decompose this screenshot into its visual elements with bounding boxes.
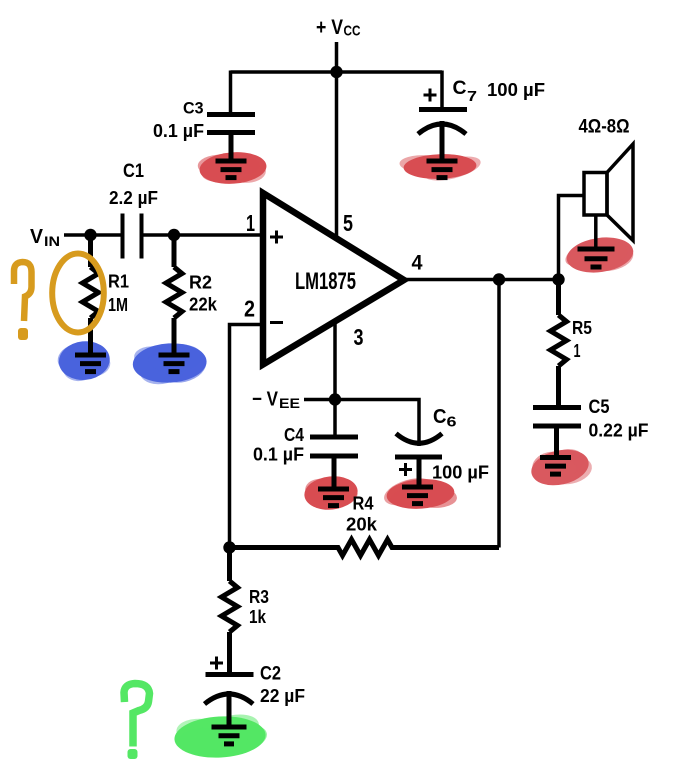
op-amp U1 LM1875 triangle <box>263 193 404 365</box>
svg-text:R5: R5 <box>572 318 592 338</box>
wire C3 drop <box>229 71 233 113</box>
ground C5 <box>540 458 571 475</box>
capacitor C3 <box>207 115 255 162</box>
C6 plus sign <box>399 463 412 476</box>
op-amp noninverting + sign <box>270 231 283 244</box>
svg-text:R4: R4 <box>353 493 375 514</box>
svg-text:CC: CC <box>344 23 361 40</box>
svg-text:4Ω-8Ω: 4Ω-8Ω <box>579 117 630 138</box>
capacitor C4 <box>310 437 358 489</box>
svg-text:3: 3 <box>354 324 364 350</box>
wire C1 to pin 1 <box>142 233 265 237</box>
resistor R3 <box>222 548 238 673</box>
svg-text:100 µF: 100 µF <box>487 79 545 100</box>
wire VIN lead <box>64 233 122 237</box>
wire speaker feed <box>559 196 585 280</box>
svg-text:1k: 1k <box>249 606 267 627</box>
svg-text:C4: C4 <box>284 425 304 445</box>
resistor R5 <box>551 280 567 407</box>
C7 plus sign <box>424 89 437 102</box>
annotation green question mark <box>124 684 150 760</box>
svg-text:100 µF: 100 µF <box>432 462 489 483</box>
capacitor C7 (polarized) <box>418 110 467 162</box>
svg-text:C1: C1 <box>123 161 144 182</box>
svg-text:7: 7 <box>467 88 477 105</box>
wire VEE to C6 <box>335 400 419 447</box>
svg-text:1: 1 <box>574 341 581 361</box>
resistor R1 <box>83 235 99 355</box>
junction C1 / R2 <box>168 229 180 241</box>
red marker scribble over C5 ground <box>528 444 595 490</box>
svg-text:R1: R1 <box>108 272 129 292</box>
svg-text:C: C <box>453 78 467 99</box>
C6 label <box>433 406 457 431</box>
svg-text:IN: IN <box>44 234 60 249</box>
wire output pin 4 <box>402 278 559 282</box>
wire VCC vertical to pin 5 <box>335 42 339 238</box>
svg-text:1: 1 <box>246 210 255 236</box>
junction VCC rail <box>330 66 342 78</box>
blue marker scribble over R2 ground <box>132 341 210 388</box>
svg-text:EE: EE <box>279 395 300 411</box>
wire VEE lead <box>304 398 335 402</box>
ground C7 <box>427 161 458 178</box>
C7 label <box>453 78 478 105</box>
svg-text:4: 4 <box>412 252 423 275</box>
svg-text:+ V: + V <box>316 16 343 39</box>
capacitor C1 <box>123 214 142 259</box>
svg-text:R3: R3 <box>249 586 269 607</box>
annotation orange ellipse around R1 <box>52 254 104 333</box>
wire C7 drop <box>440 71 444 109</box>
svg-text:V: V <box>30 226 44 248</box>
red marker scribble over C3 ground <box>198 150 268 186</box>
svg-text:2.2 µF: 2.2 µF <box>109 187 158 208</box>
svg-text:2: 2 <box>244 296 255 322</box>
speaker LS1 <box>584 144 633 249</box>
svg-text:0.1 µF: 0.1 µF <box>153 120 204 141</box>
svg-text:22 µF: 22 µF <box>260 685 305 706</box>
capacitor C2 (polarized) <box>205 675 254 728</box>
junction feedback / R3 <box>223 541 235 553</box>
svg-text:C5: C5 <box>589 397 610 418</box>
ground C3 <box>216 161 247 178</box>
svg-text:LM1875: LM1875 <box>295 268 356 295</box>
red marker scribble over speaker ground <box>562 233 636 277</box>
resistor R2 <box>166 235 182 355</box>
wire pin 2 to feedback node <box>230 325 265 548</box>
green marker scribble over C2 ground <box>173 708 270 762</box>
svg-text:0.22 µF: 0.22 µF <box>589 420 649 441</box>
svg-text:6: 6 <box>447 414 457 431</box>
svg-text:22k: 22k <box>189 295 218 315</box>
svg-text:5: 5 <box>343 210 353 236</box>
annotation orange question mark <box>14 262 32 340</box>
ground R1 <box>75 355 106 372</box>
svg-text:C: C <box>433 406 447 428</box>
node VIN label <box>30 226 60 249</box>
svg-text:C3: C3 <box>183 99 204 118</box>
red marker scribble over C7 ground <box>399 152 483 185</box>
ground C6 <box>402 487 433 504</box>
node -VEE label <box>252 389 300 412</box>
svg-text:R2: R2 <box>189 273 212 293</box>
junction VIN / R1 <box>84 229 96 241</box>
wire feedback bottom with resistor R4 <box>230 540 500 556</box>
svg-text:20k: 20k <box>346 514 378 535</box>
ground R2 <box>159 355 190 372</box>
svg-text:− V: − V <box>252 389 279 411</box>
junction output / speaker <box>552 273 564 285</box>
ground speaker <box>578 249 615 267</box>
svg-text:1M: 1M <box>108 295 128 315</box>
capacitor C6 (polarized) <box>395 434 442 488</box>
node +VCC label <box>316 16 361 40</box>
ground C4 <box>318 489 349 506</box>
C2 plus sign <box>210 657 223 670</box>
capacitor C5 <box>533 408 581 458</box>
ground C2 <box>212 727 247 744</box>
wire feedback vertical <box>497 280 501 548</box>
junction output / feedback <box>493 273 505 285</box>
svg-text:C2: C2 <box>260 664 281 685</box>
red marker scribble over C4 ground <box>303 474 360 513</box>
junction VEE / pin3 / C6 <box>329 393 341 405</box>
wire VCC top rail <box>231 70 443 74</box>
red marker scribble over C6 ground <box>381 473 458 511</box>
op-amp inverting - sign <box>270 321 283 324</box>
blue marker scribble over R1 ground <box>54 338 112 386</box>
svg-text:0.1 µF: 0.1 µF <box>253 444 304 465</box>
wire pin 3 down <box>333 321 337 436</box>
